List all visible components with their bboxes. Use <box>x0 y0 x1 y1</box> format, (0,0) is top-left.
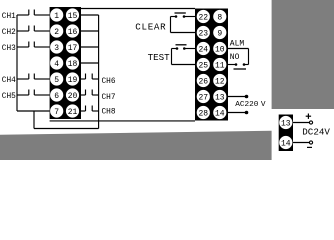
svg-text:28: 28 <box>198 109 208 118</box>
svg-text:CH5: CH5 <box>2 93 16 101</box>
svg-text:9: 9 <box>217 29 222 38</box>
svg-text:TEST: TEST <box>148 52 171 63</box>
svg-text:AC220: AC220 <box>235 101 258 109</box>
svg-text:CH1: CH1 <box>2 13 16 21</box>
svg-text:CH6: CH6 <box>102 78 116 86</box>
svg-text:CH2: CH2 <box>2 29 16 37</box>
svg-text:24: 24 <box>198 45 208 54</box>
svg-text:26: 26 <box>198 77 208 86</box>
svg-text:14: 14 <box>215 109 225 118</box>
svg-text:CLEAR: CLEAR <box>135 21 166 32</box>
svg-text:20: 20 <box>68 92 78 101</box>
svg-text:5: 5 <box>54 76 59 85</box>
svg-text:19: 19 <box>68 76 78 85</box>
svg-text:7: 7 <box>54 108 59 117</box>
svg-text:6: 6 <box>54 92 59 101</box>
svg-text:CH3: CH3 <box>2 45 16 53</box>
svg-text:NO: NO <box>230 53 240 62</box>
svg-text:V: V <box>261 101 266 109</box>
svg-text:18: 18 <box>68 60 78 69</box>
svg-text:3: 3 <box>54 44 59 53</box>
svg-text:CH4: CH4 <box>2 77 16 85</box>
svg-text:4: 4 <box>54 60 59 69</box>
svg-text:21: 21 <box>68 108 78 117</box>
svg-text:13: 13 <box>215 93 225 102</box>
svg-text:10: 10 <box>215 45 225 54</box>
svg-text:DC24V: DC24V <box>302 126 330 137</box>
svg-text:11: 11 <box>215 61 225 70</box>
svg-text:23: 23 <box>198 29 208 38</box>
svg-text:27: 27 <box>198 93 208 102</box>
svg-text:CH8: CH8 <box>102 109 116 117</box>
svg-text:16: 16 <box>68 28 78 37</box>
svg-text:15: 15 <box>68 12 78 21</box>
svg-text:25: 25 <box>198 61 208 70</box>
svg-text:13: 13 <box>281 119 291 128</box>
svg-text:17: 17 <box>68 44 78 53</box>
svg-text:12: 12 <box>215 77 225 86</box>
svg-text:ALM: ALM <box>230 39 245 48</box>
svg-text:22: 22 <box>198 13 208 22</box>
svg-text:8: 8 <box>217 13 222 22</box>
svg-text:2: 2 <box>54 28 59 37</box>
svg-text:14: 14 <box>281 139 291 148</box>
svg-text:CH7: CH7 <box>102 94 116 102</box>
svg-text:1: 1 <box>54 12 59 21</box>
